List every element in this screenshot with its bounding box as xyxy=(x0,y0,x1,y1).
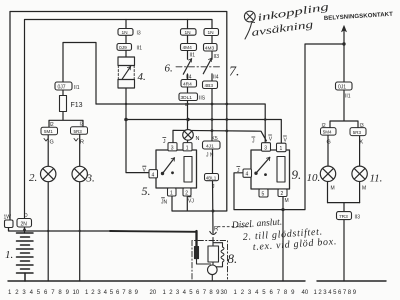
svg-text:3: 3 xyxy=(248,290,252,296)
svg-text:I3: I3 xyxy=(137,31,141,37)
svg-text:3DL1: 3DL1 xyxy=(181,95,193,101)
svg-text:4: 4 xyxy=(30,290,34,296)
wire belysningskontakt arrow stem xyxy=(343,30,345,82)
svg-text:20: 20 xyxy=(150,290,157,296)
wire x212 chain verticals xyxy=(211,36,213,142)
svg-text:BELYSNINGSKONTAKT: BELYSNINGSKONTAKT xyxy=(324,12,394,22)
svg-text:JN: JN xyxy=(161,200,168,206)
wire lamp3 stem xyxy=(79,134,81,281)
svg-text:8: 8 xyxy=(209,290,213,296)
connector 1N (lampN chain) xyxy=(181,29,197,36)
svg-text:6.: 6. xyxy=(165,63,173,75)
svg-text:4M3: 4M3 xyxy=(205,45,215,51)
svg-text:3: 3 xyxy=(97,290,101,296)
svg-text:6: 6 xyxy=(338,290,342,296)
svg-text:1W: 1W xyxy=(4,215,12,221)
wire comp4 down to relay5 pin 4 xyxy=(126,88,149,173)
svg-text:4J1: 4J1 xyxy=(206,143,214,149)
svg-text:4: 4 xyxy=(255,290,259,296)
svg-text:5: 5 xyxy=(262,290,266,296)
connector 2N (battery positive) xyxy=(17,219,32,228)
svg-text:5M1: 5M1 xyxy=(44,129,53,134)
svg-text:J: J xyxy=(252,139,255,145)
fuse holder 4M4 xyxy=(181,44,197,51)
svg-text:1N: 1N xyxy=(122,30,129,36)
pin 3 relay 5 top xyxy=(168,143,177,151)
svg-text:30: 30 xyxy=(221,290,228,296)
svg-text:5: 5 xyxy=(333,290,337,296)
switch 7 blade xyxy=(203,58,211,73)
wire relay9 J to belysningskontakt bus xyxy=(234,44,344,210)
svg-text:II3: II3 xyxy=(214,54,220,60)
wire outer ground loop (left border, top border, right drop to relay-5 pin bus) xyxy=(10,12,227,221)
lamp 11 xyxy=(352,166,367,181)
svg-text:2: 2 xyxy=(169,290,173,296)
connector 7R3 xyxy=(337,212,352,220)
fuse holder 0J9 xyxy=(117,44,132,51)
svg-text:J: J xyxy=(163,139,166,145)
svg-text:F13: F13 xyxy=(71,102,83,109)
ruler numbers xyxy=(8,290,357,296)
lamp 10 xyxy=(320,166,335,181)
wire battery plus drop thick into comp8 xyxy=(195,231,197,247)
svg-text:1: 1 xyxy=(186,145,189,151)
svg-text:inkoppling: inkoppling xyxy=(257,2,330,24)
svg-text:5R3: 5R3 xyxy=(353,130,362,135)
battery 1 xyxy=(17,233,34,281)
svg-text:3: 3 xyxy=(171,145,174,151)
svg-text:9: 9 xyxy=(353,290,357,296)
pin 2 relay 5 bottom xyxy=(183,188,191,196)
svg-text:11.: 11. xyxy=(370,173,383,185)
lamp 3 xyxy=(72,166,87,181)
wire relay9 M ground drop xyxy=(282,196,284,281)
svg-text:3: 3 xyxy=(176,290,180,296)
dashed pointer to note xyxy=(218,226,251,228)
dash-dot enclosure 8 xyxy=(192,241,228,280)
svg-text:8.: 8. xyxy=(228,251,238,266)
svg-text:II4: II4 xyxy=(213,75,219,81)
svg-text:II1: II1 xyxy=(74,85,80,91)
svg-text:4.: 4. xyxy=(138,71,146,83)
svg-text:6: 6 xyxy=(44,290,48,296)
svg-text:9: 9 xyxy=(66,290,70,296)
fuse holder 4M3 xyxy=(204,44,218,52)
svg-text:1N: 1N xyxy=(185,30,192,36)
svg-text:5R3: 5R3 xyxy=(74,129,83,134)
connector 1N (comp4 chain) xyxy=(118,29,133,36)
svg-text:6: 6 xyxy=(270,290,274,296)
svg-text:4BL1: 4BL1 xyxy=(206,175,217,180)
svg-text:6: 6 xyxy=(196,290,200,296)
wire battery top link xyxy=(24,227,26,233)
wire lamp10 stem xyxy=(327,135,330,202)
wire inner supply bus (battery + up left side, along top, down into 1N at x212) xyxy=(25,20,213,219)
svg-text:10: 10 xyxy=(73,290,80,296)
svg-text:4: 4 xyxy=(183,290,187,296)
svg-text:6: 6 xyxy=(116,290,120,296)
svg-text:4: 4 xyxy=(104,290,108,296)
connector 1W (battery negative to frame) xyxy=(5,220,14,228)
wire bus 104 (from F13 loop to relay 9 pin 3) xyxy=(96,104,265,143)
pin 1 relay 5 bottom xyxy=(168,188,177,196)
svg-text:2: 2 xyxy=(318,290,322,296)
svg-text:8: 8 xyxy=(348,290,352,296)
svg-text:40: 40 xyxy=(302,290,309,296)
wire lampN chain verticals xyxy=(187,20,189,143)
svg-text:4: 4 xyxy=(246,172,249,178)
svg-text:R: R xyxy=(214,227,219,233)
svg-text:1.: 1. xyxy=(5,249,13,261)
wire 0J1 down and T split right lamps xyxy=(330,90,358,128)
annotation diesel note xyxy=(231,218,283,232)
svg-text:2: 2 xyxy=(281,191,284,197)
svg-text:0J1: 0J1 xyxy=(338,85,346,91)
svg-text:1: 1 xyxy=(8,290,12,296)
svg-text:7: 7 xyxy=(203,290,207,296)
connector 1N (x212 chain) xyxy=(204,29,219,36)
svg-text:5: 5 xyxy=(189,290,193,296)
relay 4 (dimmer relay with dashed body) xyxy=(118,57,135,88)
svg-text:1N: 1N xyxy=(208,30,215,36)
svg-text:5: 5 xyxy=(37,290,41,296)
indicator lamp N xyxy=(183,130,194,141)
svg-text:1: 1 xyxy=(85,290,89,296)
svg-text:7: 7 xyxy=(122,290,126,296)
svg-text:3: 3 xyxy=(323,290,327,296)
svg-text:4B3: 4B3 xyxy=(205,83,214,89)
svg-text:II1: II1 xyxy=(190,53,196,59)
pin 4 relay 9 xyxy=(243,169,252,177)
wire bus 119 (from comp4 drop to relay 9 pin 1) xyxy=(126,120,281,144)
wire right lamps joiner down to 7R3 xyxy=(328,203,360,281)
wire 0J7 to fuse F13 xyxy=(62,90,64,96)
svg-text:1: 1 xyxy=(163,290,167,296)
pin 3 relay 9 top xyxy=(262,143,271,152)
svg-text:M: M xyxy=(362,186,366,192)
svg-text:3: 3 xyxy=(22,290,26,296)
lamp 2 xyxy=(41,166,56,181)
svg-text:IIS: IIS xyxy=(199,96,206,102)
svg-text:M: M xyxy=(331,186,335,192)
svg-text:N: N xyxy=(196,136,200,142)
svg-text:V: V xyxy=(269,137,273,143)
svg-text:7: 7 xyxy=(343,290,347,296)
svg-text:J: J xyxy=(212,184,215,190)
svg-text:4: 4 xyxy=(328,290,332,296)
svg-text:5: 5 xyxy=(262,192,265,198)
svg-text:3.: 3. xyxy=(86,173,95,185)
svg-text:K: K xyxy=(360,140,364,146)
relay 5 xyxy=(156,150,197,188)
wire battery plus bus 231 xyxy=(9,228,111,231)
svg-text:8: 8 xyxy=(128,290,132,296)
pin 5 relay 9 bottom xyxy=(259,189,268,197)
svg-text:3: 3 xyxy=(264,146,267,152)
wire relay5 ground bus xyxy=(172,196,227,211)
pin 1 relay 5 top xyxy=(183,143,192,151)
switch 6 linkage dash-dot xyxy=(176,66,222,68)
svg-text:II3: II3 xyxy=(355,215,361,221)
wire comp4 chain verticals xyxy=(125,20,127,58)
connector 4BL1 xyxy=(205,174,219,181)
svg-text:G: G xyxy=(50,140,54,146)
svg-text:9.: 9. xyxy=(292,167,302,182)
svg-text:8: 8 xyxy=(58,290,62,296)
svg-text:5.: 5. xyxy=(142,184,151,198)
svg-text:1: 1 xyxy=(234,290,238,296)
svg-text:10.: 10. xyxy=(307,172,321,184)
svg-text:7: 7 xyxy=(277,290,281,296)
svg-text:9: 9 xyxy=(135,290,139,296)
svg-text:VJ: VJ xyxy=(188,199,194,205)
svg-text:4R4: 4R4 xyxy=(183,82,192,88)
wire bottom ground bus xyxy=(8,280,386,282)
wire bus 130 (relay 5 pin 3 to relay 9 pin 3 diagonal) xyxy=(173,130,266,142)
svg-text:4M4: 4M4 xyxy=(183,45,193,51)
pin 4 relay 5 xyxy=(149,170,158,178)
svg-text:2: 2 xyxy=(241,290,245,296)
annotation circled X with inkoppling avsakning xyxy=(244,11,255,39)
pin 1 relay 9 top xyxy=(277,143,287,152)
svg-text:2: 2 xyxy=(185,191,188,197)
svg-text:2.: 2. xyxy=(29,172,37,184)
fuse F13 xyxy=(60,96,67,112)
svg-text:4: 4 xyxy=(152,172,155,178)
wire lamp2 stem xyxy=(47,135,49,281)
svg-text:1: 1 xyxy=(170,191,173,197)
relay 9 xyxy=(251,150,290,189)
fuse holder 0J1 xyxy=(336,82,353,90)
svg-text:9: 9 xyxy=(291,290,295,296)
svg-text:7R3: 7R3 xyxy=(339,214,348,220)
wire F13 down and T split xyxy=(49,112,83,128)
wire 4J1 down through 4BL1 to R and comp8 xyxy=(212,149,215,233)
svg-text:8: 8 xyxy=(284,290,288,296)
svg-text:J N: J N xyxy=(206,153,214,159)
svg-text:G: G xyxy=(327,140,331,146)
svg-text:II1: II1 xyxy=(345,94,351,100)
svg-text:1: 1 xyxy=(280,146,283,152)
svg-text:2N: 2N xyxy=(21,222,28,228)
svg-text:2: 2 xyxy=(15,290,19,296)
lamp holder 3DL1 xyxy=(179,93,198,101)
switch 6 blade xyxy=(183,59,191,74)
svg-text:7.: 7. xyxy=(229,65,240,80)
svg-text:D: D xyxy=(24,213,28,219)
resistor unit 8 xyxy=(195,243,225,281)
pin 2 relay 9 bottom xyxy=(278,189,287,197)
svg-text:5: 5 xyxy=(110,290,114,296)
svg-text:II1: II1 xyxy=(137,46,143,52)
svg-text:1: 1 xyxy=(314,290,318,296)
node BELYSNINGSKONTAKT arrow xyxy=(342,26,347,32)
svg-text:7: 7 xyxy=(51,290,55,296)
svg-text:M: M xyxy=(285,198,289,204)
svg-text:0J9: 0J9 xyxy=(119,45,127,51)
svg-text:V: V xyxy=(284,138,288,144)
fuse holder 0J7 xyxy=(55,82,72,90)
wire chain A top loop (0J7 up, over, down to bus 104) xyxy=(63,43,96,105)
svg-text:5M4: 5M4 xyxy=(323,130,332,135)
svg-text:9: 9 xyxy=(216,290,220,296)
wire lamp11 stem xyxy=(359,136,361,203)
svg-text:0J7: 0J7 xyxy=(58,85,66,91)
svg-text:R: R xyxy=(80,140,84,146)
svg-text:2: 2 xyxy=(91,290,95,296)
